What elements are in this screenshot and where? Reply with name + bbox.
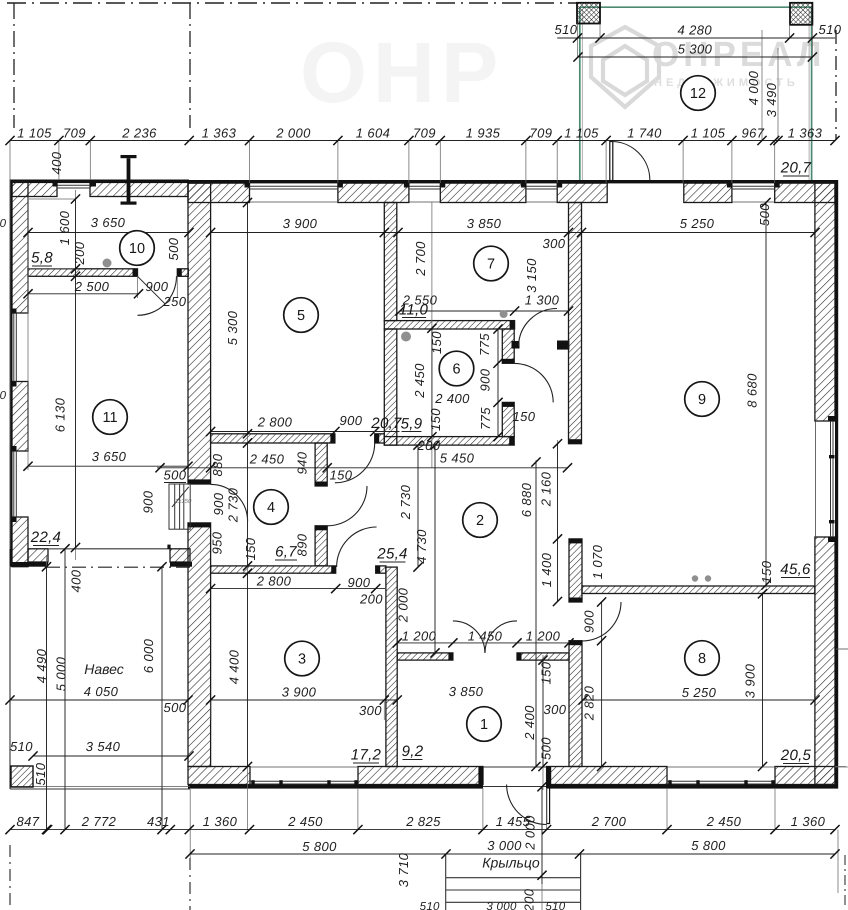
svg-text:400: 400 — [49, 151, 64, 174]
svg-text:2 820: 2 820 — [582, 685, 597, 721]
room 4 circle — [254, 490, 289, 525]
svg-text:1: 1 — [480, 717, 488, 733]
svg-text:2 400: 2 400 — [434, 391, 470, 406]
top window 408.9-440.3 — [409, 185, 440, 187]
west door jamb caps — [188, 479, 211, 484]
svg-text:2 000: 2 000 — [275, 126, 311, 141]
terrace column east — [790, 3, 812, 25]
svg-text:5 250: 5 250 — [680, 216, 715, 231]
svg-text:1 600: 1 600 — [57, 210, 72, 245]
room 9 circle — [685, 382, 720, 417]
axis dash-dot top horizontal — [7, 2, 577, 4]
svg-text:880: 880 — [210, 453, 225, 476]
svg-text:2 825: 2 825 — [405, 814, 441, 829]
terrace boundary green — [580, 7, 812, 180]
svg-text:200: 200 — [417, 438, 441, 453]
annex north window 709 — [57, 184, 90, 186]
svg-text:500: 500 — [164, 700, 187, 715]
main east outer line — [835, 180, 838, 789]
room 7 circle — [474, 246, 509, 281]
svg-text:2 236: 2 236 — [121, 126, 157, 141]
svg-text:20,7: 20,7 — [370, 415, 402, 432]
svg-text:950: 950 — [210, 531, 225, 554]
wall rooms5|7 column upper — [384, 203, 397, 321]
svg-text:3 900: 3 900 — [283, 216, 318, 231]
svg-text:5 300: 5 300 — [678, 42, 713, 57]
hall double door arcs — [453, 621, 485, 653]
svg-text:3 850: 3 850 — [467, 216, 502, 231]
wall hall|room8 stub — [569, 539, 582, 602]
svg-text:6: 6 — [452, 362, 460, 378]
annex west window 2 — [13, 451, 15, 517]
room6 right wall lower stub — [502, 402, 514, 436]
axis dashed annex bottom — [46, 566, 190, 568]
svg-text:2 772: 2 772 — [81, 814, 117, 829]
main east wall lower — [815, 537, 835, 785]
svg-text:4: 4 — [267, 500, 275, 516]
svg-text:3 000: 3 000 — [486, 901, 517, 910]
svg-text:847: 847 — [17, 814, 40, 829]
svg-text:5,8: 5,8 — [31, 250, 53, 267]
wall piece right of door5 — [375, 434, 385, 443]
wall piece right of door3 — [376, 566, 386, 573]
svg-text:1 450: 1 450 — [468, 629, 503, 644]
garage gate right pier — [170, 549, 190, 562]
entrance door arc — [507, 785, 547, 825]
room4 east wall lower stub — [315, 526, 327, 566]
svg-text:2 400: 2 400 — [522, 705, 537, 741]
svg-text:300: 300 — [359, 703, 382, 718]
svg-text:3 000: 3 000 — [487, 838, 522, 853]
column symbol at annex top — [121, 155, 137, 158]
svg-text:2 500: 2 500 — [74, 279, 110, 294]
svg-text:5 800: 5 800 — [691, 838, 726, 853]
watermark logo house icon — [591, 27, 659, 107]
wall rooms7|9 — [569, 203, 582, 444]
wall rooms3|1 — [386, 567, 397, 766]
svg-text:2 450: 2 450 — [706, 814, 742, 829]
svg-text:2 160: 2 160 — [539, 471, 554, 507]
svg-text:900: 900 — [348, 575, 371, 590]
svg-text:8 680: 8 680 — [745, 373, 760, 408]
main top wall pier 2 — [440, 183, 526, 202]
main bottom outer line seg2 — [547, 785, 835, 789]
svg-text:3 540: 3 540 — [86, 739, 121, 754]
svg-text:3 900: 3 900 — [282, 685, 317, 700]
svg-text:300: 300 — [543, 236, 566, 251]
main bottom wall pier 1 — [358, 767, 483, 785]
svg-text:1 360: 1 360 — [203, 814, 238, 829]
svg-text:940: 940 — [295, 451, 310, 474]
main west wall lower — [188, 523, 211, 767]
main east wall upper — [815, 183, 835, 421]
svg-text:1 200: 1 200 — [402, 629, 437, 644]
east window — [832, 421, 834, 537]
svg-text:5 300: 5 300 — [225, 310, 240, 345]
room 1 circle — [467, 707, 502, 742]
svg-text:1 105: 1 105 — [564, 126, 599, 141]
annex SW corner pier — [28, 549, 48, 562]
main top wall pier 4 — [684, 183, 732, 202]
wall rooms7|6 divider — [384, 321, 514, 329]
svg-text:6,7: 6,7 — [275, 544, 297, 561]
svg-text:4 490: 4 490 — [34, 648, 49, 683]
svg-text:150: 150 — [429, 331, 444, 354]
svg-text:775: 775 — [477, 333, 492, 356]
top window 525.9-557.2 — [526, 185, 557, 187]
door room10-11 — [138, 276, 177, 315]
svg-text:1 400: 1 400 — [539, 552, 554, 587]
svg-text:2 700: 2 700 — [413, 241, 428, 277]
main bottom wall pier 0 — [188, 767, 250, 785]
svg-text:900: 900 — [146, 279, 169, 294]
main top wall pier 0 — [188, 183, 250, 202]
main top wall pier 3 — [557, 183, 607, 202]
west entry door arc — [211, 484, 248, 521]
axis dashed bottom left — [9, 845, 11, 910]
main top wall outer line — [188, 180, 835, 183]
svg-text:6 130: 6 130 — [53, 397, 68, 432]
svg-text:6 000: 6 000 — [141, 638, 156, 673]
corridor door arc — [519, 308, 558, 346]
main top wall pier 1 — [338, 183, 409, 202]
gray dots — [103, 259, 112, 268]
svg-text:22,4: 22,4 — [30, 529, 61, 546]
annex west window 1 — [13, 313, 15, 382]
svg-text:2 700: 2 700 — [591, 814, 627, 829]
svg-text:510: 510 — [545, 901, 565, 910]
svg-text:3: 3 — [298, 652, 306, 668]
svg-text:1 740: 1 740 — [627, 126, 662, 141]
svg-text:5 450: 5 450 — [440, 451, 475, 466]
door room5 arc — [335, 443, 375, 483]
svg-text:Навес: Навес — [84, 661, 124, 677]
svg-text:0: 0 — [0, 390, 7, 402]
west entry steps — [169, 484, 190, 529]
svg-text:500: 500 — [539, 737, 554, 760]
svg-text:250: 250 — [163, 294, 187, 309]
svg-text:5 800: 5 800 — [302, 839, 337, 854]
svg-text:2 730: 2 730 — [398, 484, 413, 520]
room4 east wall upper stub — [315, 443, 327, 486]
svg-text:1 935: 1 935 — [466, 126, 501, 141]
axis vertical x836 — [835, 30, 837, 140]
main top wall pier 5 — [775, 183, 835, 202]
annex west wall upper — [12, 182, 28, 313]
svg-text:2 450: 2 450 — [412, 363, 427, 399]
room 10 circle — [120, 231, 155, 266]
svg-text:510: 510 — [33, 762, 48, 785]
svg-text:500: 500 — [166, 237, 181, 260]
svg-text:3 650: 3 650 — [91, 215, 126, 230]
svg-text:900: 900 — [211, 492, 226, 515]
garage gate opening — [48, 548, 170, 550]
svg-text:900: 900 — [478, 368, 493, 391]
svg-text:10: 10 — [129, 241, 145, 257]
svg-text:900: 900 — [582, 610, 597, 633]
main bottom outer line seg1 — [188, 785, 483, 789]
svg-text:967: 967 — [742, 126, 765, 141]
door room6 arc — [514, 363, 553, 402]
svg-text:150: 150 — [759, 560, 774, 583]
svg-text:2 550: 2 550 — [402, 293, 438, 308]
svg-text:709: 709 — [63, 126, 86, 141]
wall hall|room8 lower — [569, 641, 582, 767]
wall room1 top west seg — [397, 653, 453, 660]
svg-text:8: 8 — [698, 651, 706, 667]
room6 bottom wall — [384, 437, 514, 446]
entrance door leaf — [547, 785, 550, 824]
svg-text:5 000: 5 000 — [54, 656, 69, 691]
svg-text:500: 500 — [757, 203, 772, 226]
wall rooms5|4 — [211, 434, 335, 443]
svg-text:3 710: 3 710 — [396, 852, 411, 887]
room 12 circle — [681, 76, 716, 111]
terrace door arc — [611, 142, 650, 181]
svg-text:17,2: 17,2 — [351, 747, 382, 764]
svg-text:Крыльцо: Крыльцо — [482, 855, 540, 871]
svg-text:2: 2 — [476, 513, 484, 529]
svg-text:4 730: 4 730 — [414, 529, 429, 564]
svg-text:900: 900 — [141, 490, 156, 513]
svg-text:7: 7 — [487, 257, 495, 273]
svg-text:3 850: 3 850 — [449, 684, 484, 699]
svg-text:1 105: 1 105 — [17, 126, 52, 141]
canopy column SW — [11, 766, 33, 787]
svg-text:150: 150 — [428, 408, 443, 431]
main bottom wall pier 2 — [547, 767, 667, 785]
top window 731.9-774.7 — [732, 185, 775, 187]
svg-text:150: 150 — [513, 409, 536, 424]
main west wall upper — [188, 183, 211, 484]
room 8 circle — [685, 641, 720, 676]
svg-text:5,9: 5,9 — [401, 416, 423, 433]
door room4 arc — [327, 486, 367, 526]
svg-text:45,6: 45,6 — [780, 561, 811, 578]
svg-text:1 070: 1 070 — [590, 544, 605, 579]
svg-text:2 800: 2 800 — [256, 574, 292, 589]
svg-text:3 900: 3 900 — [743, 663, 758, 698]
svg-text:20,5: 20,5 — [780, 747, 812, 764]
svg-text:5: 5 — [297, 308, 305, 324]
svg-text:1 604: 1 604 — [356, 126, 391, 141]
svg-text:510: 510 — [10, 739, 33, 754]
svg-text:300: 300 — [544, 702, 567, 717]
door room3 arc — [337, 527, 377, 567]
corridor door tabs — [512, 341, 520, 349]
bottom window 250-358 — [250, 780, 358, 782]
svg-text:900: 900 — [340, 413, 363, 428]
svg-text:20,7: 20,7 — [780, 160, 812, 177]
wall room1 top east seg — [517, 653, 569, 660]
main bottom wall pier 3 — [775, 767, 835, 785]
wall stub right of door10 — [177, 269, 188, 277]
svg-text:3 650: 3 650 — [92, 449, 127, 464]
wall between room10 and room11 — [28, 269, 138, 277]
annex top wall pier east — [90, 182, 188, 197]
room 11 circle — [93, 400, 128, 435]
bottom window 667-775 — [667, 780, 775, 782]
svg-text:150: 150 — [243, 537, 258, 560]
svg-text:3 150: 3 150 — [524, 258, 539, 293]
canopy west edge — [9, 567, 11, 789]
svg-text:11: 11 — [102, 410, 117, 426]
svg-text:25,4: 25,4 — [376, 546, 407, 563]
svg-text:510: 510 — [555, 22, 578, 37]
room 5 circle — [284, 298, 319, 333]
svg-text:150: 150 — [539, 661, 554, 684]
svg-text:200: 200 — [522, 888, 537, 910]
svg-text:4 000: 4 000 — [746, 70, 761, 105]
svg-text:1 363: 1 363 — [788, 126, 823, 141]
svg-text:0: 0 — [0, 218, 7, 230]
annex west wall mid — [12, 382, 28, 452]
svg-text:3 490: 3 490 — [764, 82, 779, 117]
svg-text:12: 12 — [690, 86, 706, 102]
svg-text:4 400: 4 400 — [227, 649, 242, 684]
wall rooms9|8 — [582, 586, 815, 594]
svg-text:200: 200 — [72, 241, 87, 265]
entrance door opening sill — [483, 766, 547, 768]
svg-text:500: 500 — [164, 468, 187, 483]
svg-text:510: 510 — [420, 901, 440, 910]
porch outline — [446, 854, 581, 910]
dimension ticks — [5, 136, 14, 145]
svg-text:510: 510 — [819, 22, 842, 37]
room 2 circle — [463, 503, 498, 538]
svg-text:1 363: 1 363 — [202, 126, 237, 141]
door hall-room8 arc — [582, 602, 621, 641]
svg-text:5 250: 5 250 — [682, 685, 717, 700]
svg-text:150: 150 — [330, 468, 353, 483]
wall room6 west — [384, 329, 397, 445]
svg-text:1 105: 1 105 — [691, 126, 726, 141]
svg-text:200: 200 — [359, 592, 383, 607]
terrace column west — [577, 3, 600, 24]
room 6 circle — [439, 351, 474, 386]
terrace door leaf — [610, 142, 613, 181]
room6 right wall upper stub — [502, 329, 514, 363]
room 3 circle — [285, 641, 320, 676]
svg-text:1 300: 1 300 — [525, 293, 560, 308]
svg-text:6 880: 6 880 — [519, 482, 534, 517]
annex top wall outer line — [10, 180, 189, 184]
wall rooms4|3 — [211, 566, 336, 573]
svg-text:2 450: 2 450 — [249, 452, 285, 467]
axis dashed under terrace door — [605, 180, 685, 182]
svg-text:4 050: 4 050 — [84, 684, 119, 699]
axis vertical x190 — [189, 3, 191, 128]
svg-text:9: 9 — [698, 392, 706, 408]
annex west outer line — [10, 180, 13, 567]
svg-text:2 730: 2 730 — [226, 487, 241, 523]
svg-text:709: 709 — [413, 126, 436, 141]
svg-text:1 200: 1 200 — [526, 629, 561, 644]
svg-text:709: 709 — [530, 126, 553, 141]
annex west wall lower — [12, 517, 28, 567]
svg-text:400: 400 — [69, 569, 84, 592]
annex top wall pier west — [12, 182, 57, 197]
svg-text:431: 431 — [147, 814, 170, 829]
svg-text:2 000: 2 000 — [396, 587, 411, 623]
svg-text:1x150: 1x150 — [175, 498, 192, 505]
svg-text:775: 775 — [478, 407, 493, 430]
svg-text:9,2: 9,2 — [402, 743, 424, 760]
svg-text:2 450: 2 450 — [287, 814, 323, 829]
svg-text:4 280: 4 280 — [678, 23, 713, 38]
svg-text:1 360: 1 360 — [791, 814, 826, 829]
svg-text:2 800: 2 800 — [257, 415, 293, 430]
svg-text:ОНР: ОНР — [300, 25, 504, 121]
svg-text:2 000: 2 000 — [523, 815, 538, 851]
canopy bottom edge — [10, 788, 190, 790]
top window 249.5-337.9 — [250, 185, 338, 187]
axis vertical x14 — [13, 3, 15, 128]
